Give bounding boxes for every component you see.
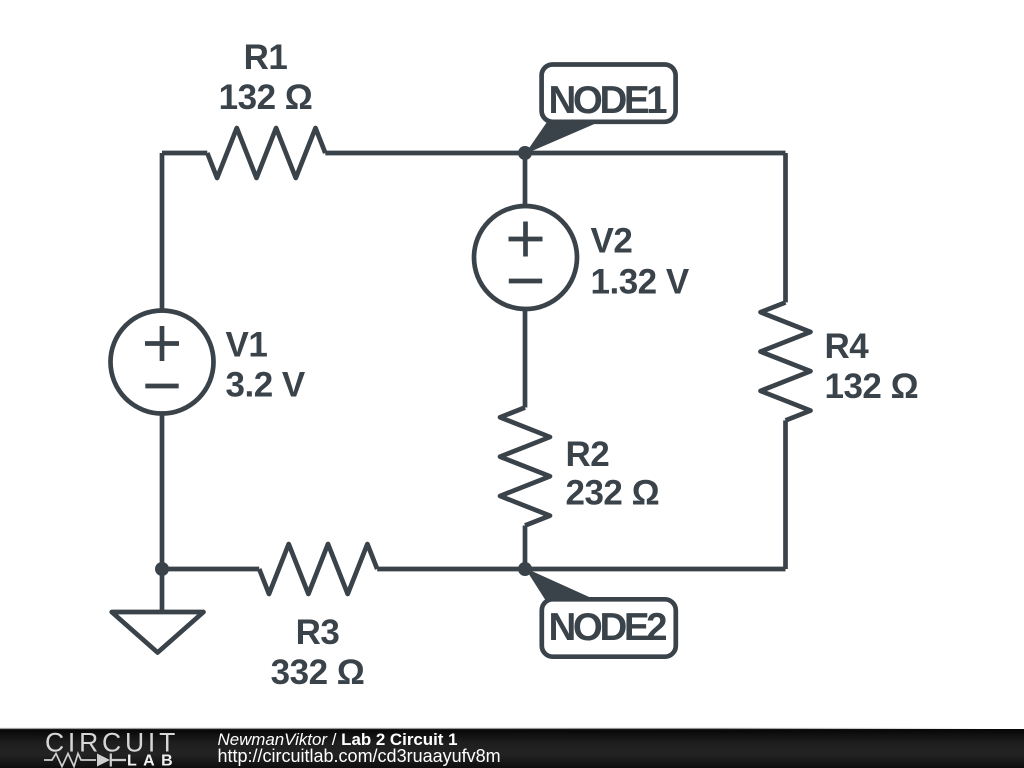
ground stem	[160, 569, 165, 610]
label R3	[271, 613, 365, 692]
logo LAB text	[127, 753, 179, 768]
logo resistor glyph	[44, 754, 96, 767]
wire top right	[525, 151, 786, 156]
NODE2 callout box	[542, 599, 676, 656]
svg-text:132 Ω: 132 Ω	[219, 78, 313, 117]
wire top-left horizontal	[162, 151, 207, 156]
V1 plus sign	[145, 326, 179, 361]
svg-text:NODE1: NODE1	[549, 79, 668, 122]
label R1	[219, 38, 313, 117]
node A junction dot (NODE1)	[518, 146, 532, 160]
NODE2 text	[549, 606, 667, 649]
V2 plus sign	[509, 222, 543, 257]
resistor R3	[259, 544, 377, 594]
label V2	[591, 222, 690, 302]
wire bottom right	[525, 567, 786, 572]
wire bottom left	[162, 567, 259, 572]
node B junction dot (NODE2)	[518, 562, 532, 576]
svg-text:1.32 V: 1.32 V	[591, 263, 690, 302]
label R4	[825, 327, 919, 406]
wire left vertical (V1 top lead)	[160, 153, 165, 311]
svg-text:NODE2: NODE2	[549, 606, 667, 649]
V2 minus sign	[509, 279, 542, 284]
NODE2 callout beak	[525, 568, 598, 601]
svg-text:V1: V1	[226, 326, 268, 365]
resistor R4	[761, 302, 811, 420]
NODE1 text	[549, 79, 668, 122]
svg-text:R3: R3	[296, 613, 340, 652]
voltage source V2	[474, 206, 577, 309]
logo diode glyph	[97, 754, 126, 767]
wire right vertical upper (R4 top lead)	[783, 153, 788, 302]
wire top middle	[325, 151, 525, 156]
node ground junction dot	[155, 562, 169, 576]
NODE1 callout beak	[525, 122, 599, 154]
resistor R2	[500, 408, 550, 526]
wire right vertical lower (R4 bottom lead)	[783, 420, 788, 569]
voltage source V1	[111, 311, 214, 414]
label V1	[226, 326, 306, 405]
wire V2 to R2	[523, 309, 528, 408]
ground symbol	[112, 612, 204, 653]
label R2	[566, 435, 660, 513]
wire R2 bottom lead	[523, 526, 528, 570]
footer title	[218, 730, 458, 749]
resistor R1	[207, 128, 325, 178]
svg-text:R1: R1	[244, 38, 288, 77]
V1 minus sign	[145, 384, 178, 389]
wire V1 bottom lead	[160, 413, 165, 569]
svg-text:132 Ω: 132 Ω	[825, 367, 919, 406]
svg-text:http://circuitlab.com/cd3ruaay: http://circuitlab.com/cd3ruaayufv8m	[218, 746, 501, 766]
svg-text:3.2 V: 3.2 V	[226, 366, 306, 405]
wire V2 top lead	[523, 153, 528, 207]
svg-text:LAB: LAB	[127, 753, 179, 768]
CircuitLab logo CIRCUIT text	[45, 728, 179, 758]
NODE1 callout box	[542, 65, 676, 122]
footer url	[218, 746, 501, 766]
wire bottom middle	[377, 567, 525, 572]
svg-text:V2: V2	[591, 222, 633, 261]
svg-text:R2: R2	[566, 435, 610, 474]
svg-text:R4: R4	[825, 327, 870, 366]
svg-text:232 Ω: 232 Ω	[566, 474, 660, 513]
footer bar	[0, 729, 1024, 768]
svg-text:332 Ω: 332 Ω	[271, 653, 365, 692]
